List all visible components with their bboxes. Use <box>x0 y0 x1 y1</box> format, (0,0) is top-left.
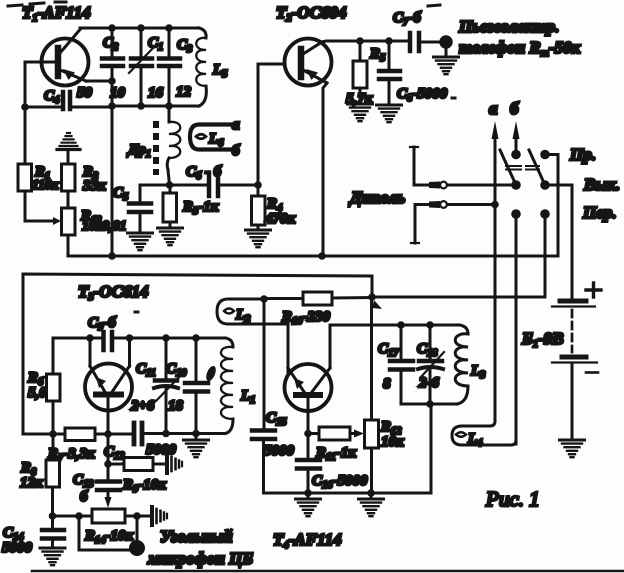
wire AF node line <box>140 185 207 202</box>
wire bottom line mid <box>95 433 131 436</box>
terminal to piezo phone <box>441 37 451 47</box>
capacitor C4 <box>25 92 112 109</box>
node R10/R12 junction <box>368 293 376 301</box>
svg-text:R14-10к: R14-10к <box>84 528 134 546</box>
wire ground rail of T4 <box>264 492 432 495</box>
battery B1 <box>552 301 597 440</box>
inductor L4 link coil <box>452 421 516 445</box>
inductor L5 <box>196 28 206 106</box>
resistor R5 <box>353 41 367 104</box>
inductor L1 <box>221 338 233 434</box>
node T3 base bottom <box>104 430 112 438</box>
wire T2 collector rail <box>322 41 408 42</box>
node top rail C3 <box>165 24 173 32</box>
ground at piezo terminal <box>445 47 448 57</box>
node C14 top <box>49 512 57 520</box>
wire L2 node to R10 <box>264 297 303 300</box>
node R11 left <box>304 430 312 438</box>
capacitor C10 <box>185 338 208 433</box>
svg-text:10к: 10к <box>82 219 104 234</box>
svg-text:Вык.: Вык. <box>583 175 620 194</box>
svg-text:50: 50 <box>77 85 93 101</box>
capacitor C7 <box>410 33 440 51</box>
capacitor C14 <box>42 516 64 548</box>
svg-text:б: б <box>232 143 240 159</box>
capacitor C11 trimmer <box>154 338 184 433</box>
node R6 bottom <box>49 430 57 438</box>
svg-text:18: 18 <box>168 398 184 414</box>
wire top rail <box>80 27 199 30</box>
wire mini rail <box>112 105 199 108</box>
svg-text:а: а <box>489 99 498 118</box>
wire dipole lower arm <box>415 203 495 206</box>
wire T3 top left segment <box>53 338 101 374</box>
svg-text:5,7к: 5,7к <box>346 91 373 107</box>
ferrite core dot of L1 <box>204 365 217 383</box>
wire Vyk-right to battery <box>545 185 572 298</box>
paper specks <box>8 2 455 312</box>
wire Per-left down to L4 <box>515 214 518 444</box>
transistor T3 <box>85 364 132 411</box>
svg-text:12к: 12к <box>20 475 43 491</box>
resistor R10 (series) <box>303 292 332 305</box>
node emitter junction <box>108 77 116 85</box>
svg-text:телефон Rт-50к: телефон Rт-50к <box>459 38 581 59</box>
wire T1 emitter to C2 column <box>86 80 112 83</box>
wire T4 base column <box>307 395 310 458</box>
wire dipole upper arm to switch <box>414 184 511 187</box>
wire L2 bottom to T4 emitter <box>287 324 290 374</box>
microphone terminal <box>130 541 144 555</box>
arrow b <box>513 121 520 139</box>
inductor L3 <box>455 325 468 404</box>
capacitor C9 <box>104 332 113 350</box>
svg-text:С16-5000: С16-5000 <box>312 473 368 491</box>
svg-text:б: б <box>80 489 88 505</box>
svg-text:Пр.: Пр. <box>569 145 596 164</box>
node a-line dipole junction <box>491 201 499 209</box>
wire T2 emitter down <box>323 83 327 256</box>
node R9 left <box>104 460 112 468</box>
wire R14 to cone <box>137 515 151 518</box>
switch lever right <box>529 150 545 185</box>
svg-text:С8-5000: С8-5000 <box>397 86 448 104</box>
switch contact Pr-left <box>511 150 521 160</box>
capacitor C5 <box>129 204 151 234</box>
battery plus <box>586 283 601 297</box>
svg-text:2÷6: 2÷6 <box>130 398 155 414</box>
node AF line / choke bottom <box>166 181 174 189</box>
svg-text:8: 8 <box>383 376 391 392</box>
arrow at junction <box>372 300 382 309</box>
bottom edge line <box>32 570 624 573</box>
node R4 top <box>254 181 262 189</box>
wire supply border of lower unit <box>23 274 372 434</box>
resistor R13 trimmer <box>25 208 75 256</box>
svg-text:5000: 5000 <box>264 443 295 459</box>
svg-text:Пьезоэлектр.: Пьезоэлектр. <box>458 17 559 36</box>
resistor R8 <box>46 434 60 516</box>
transistor T1 <box>42 30 89 86</box>
wire T3 emitter riser <box>89 338 92 366</box>
wire T3 bottom line left <box>23 433 65 436</box>
ground C16 <box>307 493 310 499</box>
capacitor C1 (trimmer) <box>129 28 154 106</box>
arrow a <box>492 121 499 139</box>
wire long vertical C2 column down to rail <box>111 107 114 256</box>
svg-text:5000: 5000 <box>146 442 177 458</box>
resistor R4 <box>252 185 266 230</box>
resistor R6 <box>47 374 61 434</box>
svg-text:110к: 110к <box>32 177 60 192</box>
capacitor C3 <box>159 28 180 106</box>
svg-text:2-6: 2-6 <box>418 375 439 391</box>
svg-text:Б1-9В: Б1-9В <box>521 329 564 350</box>
switch contact Per-left <box>511 209 521 219</box>
svg-text:Сб - б: Сб - б <box>186 164 222 182</box>
svg-text:Рис. 1: Рис. 1 <box>485 487 540 511</box>
svg-text:Т4-АF114: Т4-АF114 <box>273 530 342 551</box>
wire tank bottom <box>401 403 457 406</box>
svg-text:Т1-АF114: Т1-АF114 <box>22 3 91 24</box>
capacitor C2 <box>102 28 123 106</box>
wire mic line <box>53 515 93 518</box>
resistor R9 <box>108 458 166 471</box>
inductor L2 link coil <box>217 299 288 324</box>
node C8 top <box>385 37 393 45</box>
svg-text:0,01: 0,01 <box>102 219 127 234</box>
wire C15 column <box>263 299 266 428</box>
connector upper <box>429 182 440 189</box>
node mic branch <box>75 512 83 520</box>
wire T3 base column <box>107 395 110 480</box>
ground battery <box>560 440 585 457</box>
wire bottom line right <box>144 432 225 435</box>
svg-text:R9-10к: R9-10к <box>122 477 166 495</box>
svg-text:Диполь: Диполь <box>348 188 405 207</box>
svg-text:R3-1к: R3-1к <box>182 199 219 217</box>
connector lower <box>429 201 440 208</box>
wire a-line (to L4) <box>494 137 497 205</box>
svg-text:12: 12 <box>176 84 192 100</box>
ground R12 <box>370 493 373 499</box>
wire rail riser to tank <box>430 404 433 493</box>
node top rail C1 <box>137 24 145 32</box>
capacitor C16 <box>297 460 320 493</box>
wire T3 collector riser <box>128 338 131 366</box>
svg-text:а: а <box>232 117 240 133</box>
dipole antenna <box>410 147 419 243</box>
switch contact Vyk-left <box>511 180 521 190</box>
wire T3 top right segment <box>114 337 225 340</box>
node C4 left <box>21 103 29 111</box>
svg-text:Пер.: Пер. <box>582 203 617 222</box>
resistor R2 <box>62 150 76 208</box>
wire T4 collector riser and tank top <box>330 325 459 368</box>
capacitor C13 <box>97 482 120 509</box>
node R5 top <box>356 37 364 45</box>
wire Pr-right to rail end <box>545 155 558 257</box>
ground tank <box>195 434 198 441</box>
wire T2 base <box>258 64 284 185</box>
capacitor C6 <box>209 174 258 196</box>
node mini rail junctions <box>108 102 116 110</box>
wire b-line to contact <box>515 137 518 154</box>
resistor R3 <box>163 185 177 228</box>
capacitor C15 <box>252 431 275 494</box>
ground above R2 (upward chassis) <box>57 133 80 150</box>
svg-text:микрофон ЦБ: микрофон ЦБ <box>147 549 253 568</box>
switch mechanical link (dashed) <box>506 166 539 170</box>
svg-text:470к: 470к <box>264 211 296 227</box>
choke Dr1 <box>156 106 180 185</box>
wire mic loop <box>79 516 129 550</box>
transistor T2 <box>285 39 332 86</box>
resistor R11 <box>308 427 364 440</box>
node top rail C2 <box>108 24 116 32</box>
wire R10 right <box>332 296 372 300</box>
wire Per-right down and left to R10 node <box>372 214 545 297</box>
switch contact Pr-right <box>540 150 550 160</box>
svg-text:10: 10 <box>110 85 126 101</box>
svg-text:5000: 5000 <box>2 540 33 556</box>
node L2 top <box>260 295 268 303</box>
svg-text:33к: 33к <box>82 178 106 194</box>
wire T1 base to left column <box>25 62 56 107</box>
potentiometer R14 <box>92 509 137 523</box>
capacitor C18 trimmer <box>418 325 444 404</box>
svg-text:10к: 10к <box>381 434 404 450</box>
inductor L6 link coil <box>190 125 231 150</box>
capacitor C8 <box>379 41 400 105</box>
svg-text:16: 16 <box>148 85 164 101</box>
switch lever left <box>500 150 516 185</box>
resistor R1 <box>18 107 32 221</box>
transistor T4 <box>285 364 332 411</box>
switch contact Per-right <box>540 209 550 219</box>
svg-text:5,0: 5,0 <box>28 385 47 401</box>
capacitor C12 (series) <box>134 423 142 444</box>
node R14 right <box>133 512 141 520</box>
wire bottom rail <box>68 255 558 258</box>
resistor R7 (series) <box>65 428 95 441</box>
battery minus <box>586 371 598 374</box>
switch contact Vyk-right <box>540 180 550 190</box>
capacitor C17 <box>390 325 413 404</box>
svg-text:Угольный: Угольный <box>160 527 233 546</box>
resistor R12 <box>365 297 379 493</box>
